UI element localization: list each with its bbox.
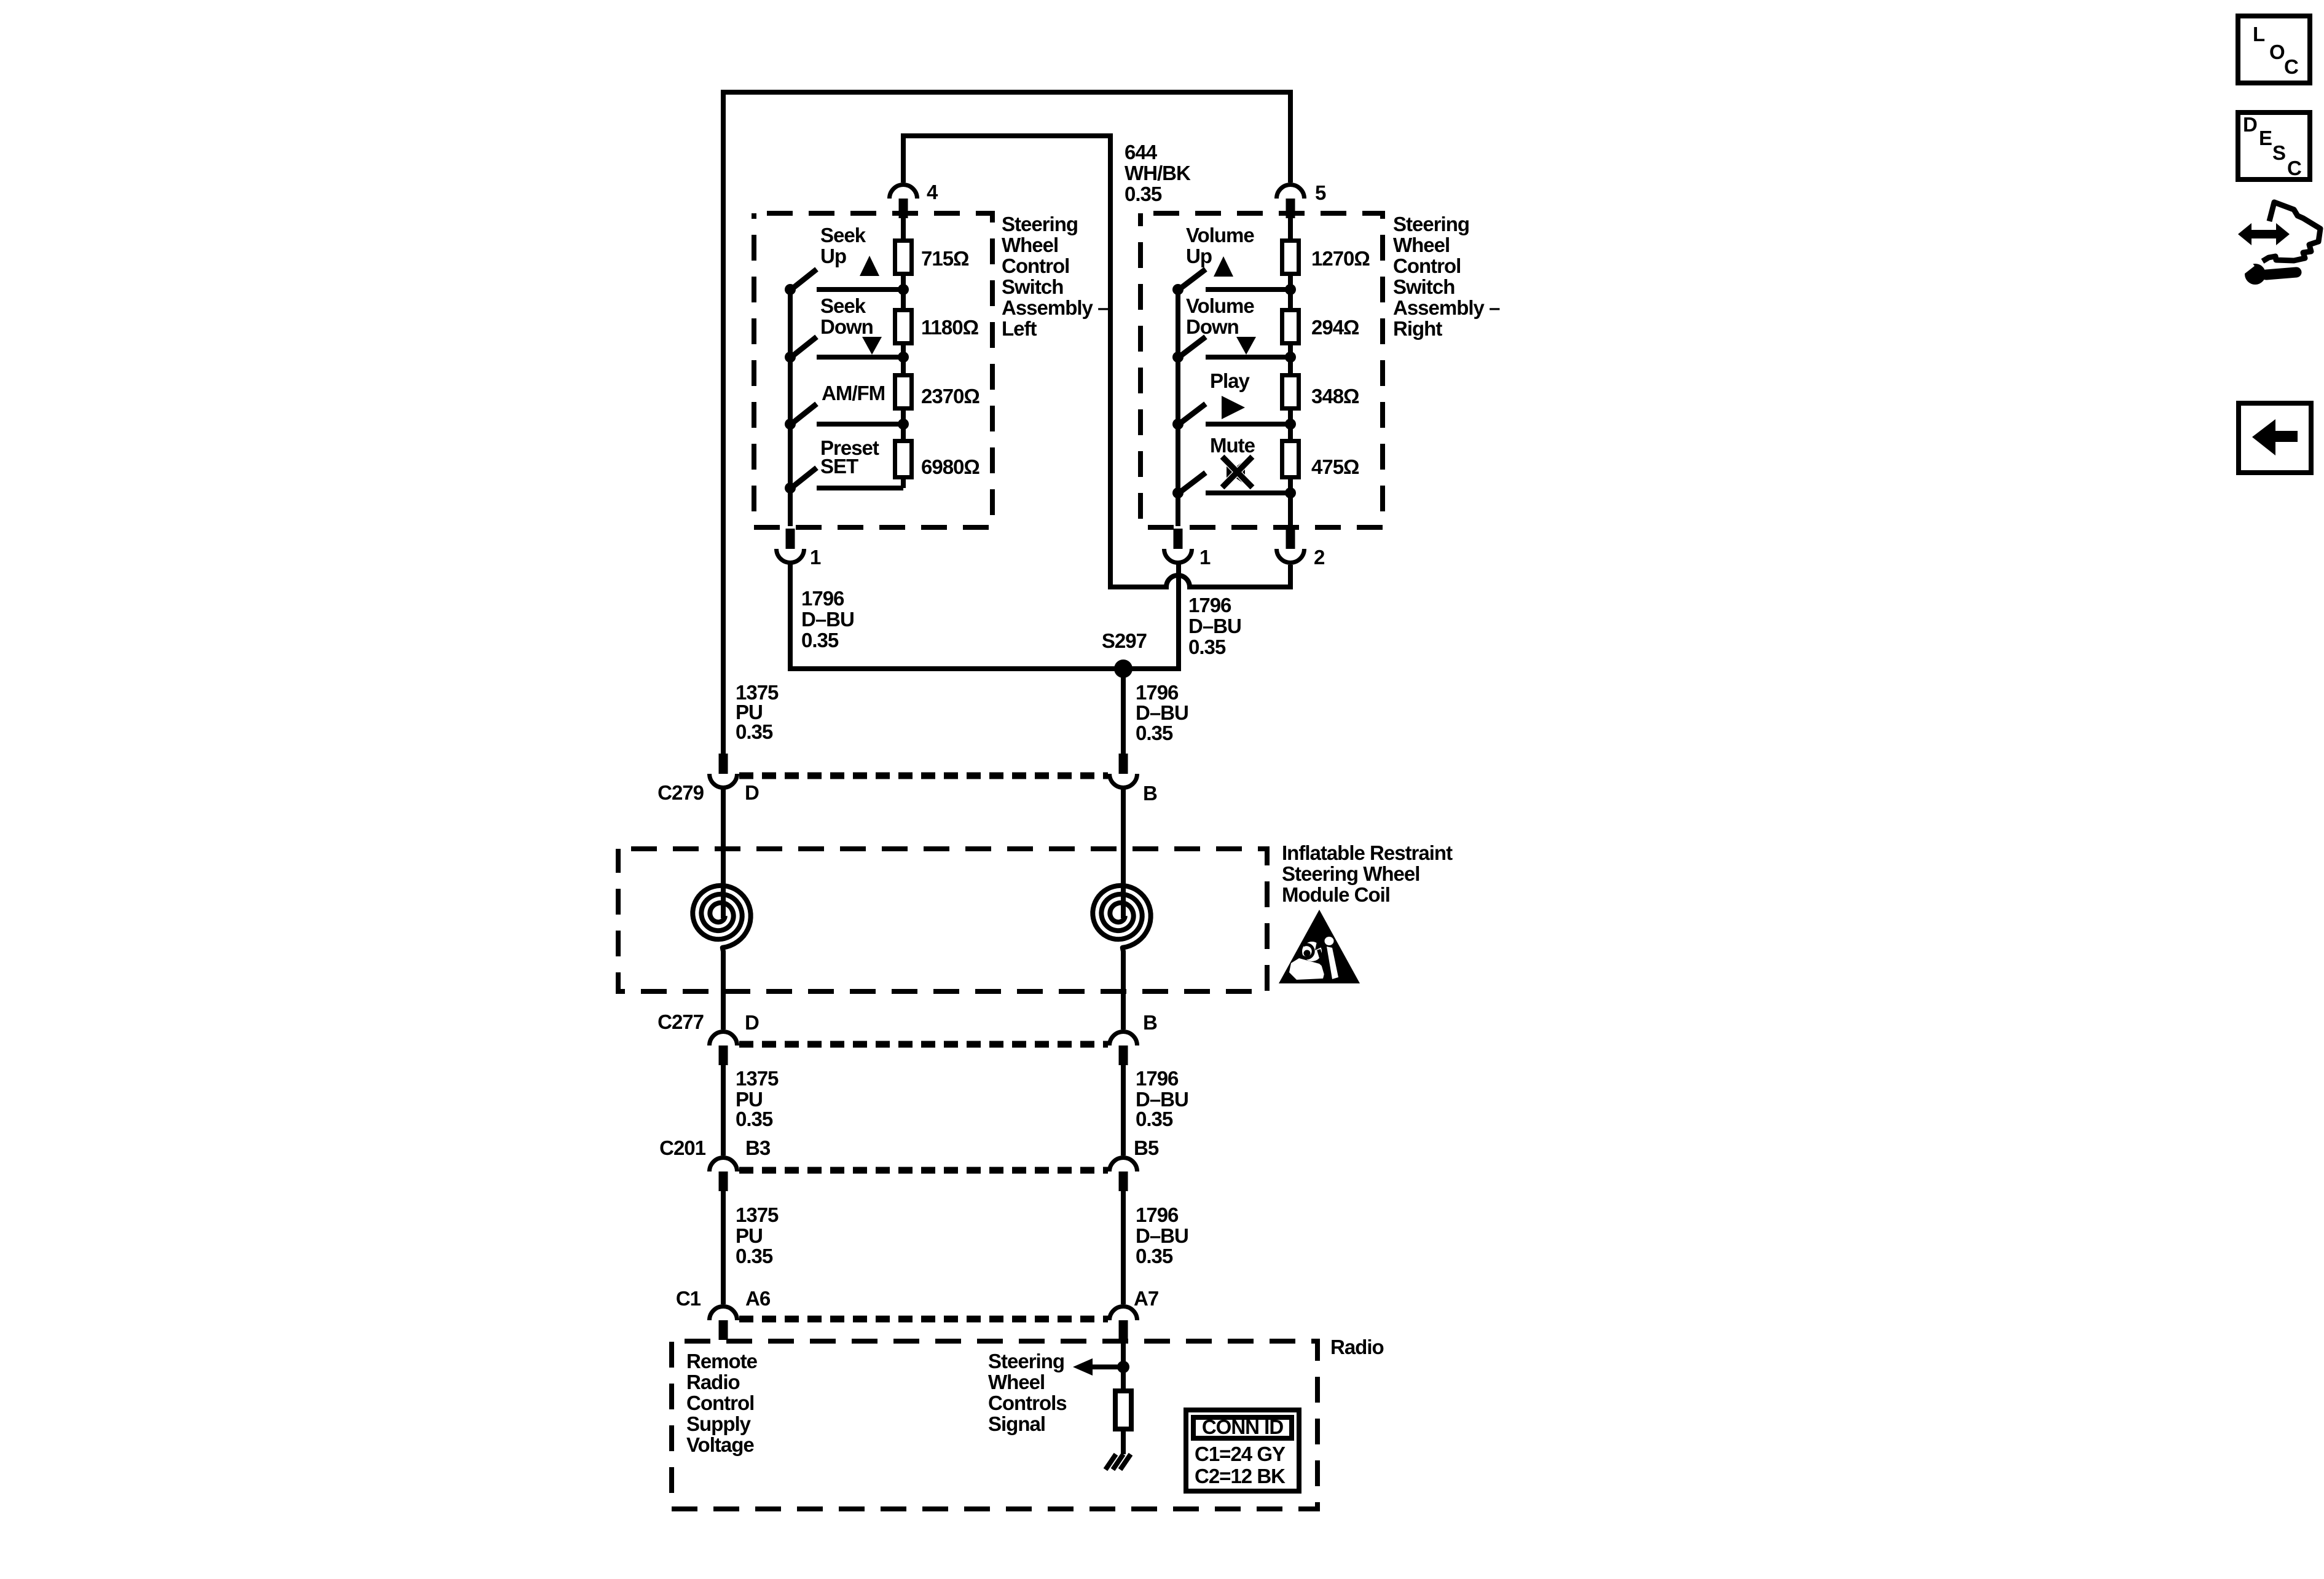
svg-text:6980Ω: 6980Ω [921,455,979,478]
label: circuit 1796 D-BU 0.35 (C201-C1) [1136,1203,1188,1267]
label: pin A6 [745,1287,771,1310]
svg-text:D: D [745,781,759,804]
connector pin 1 (left assembly bottom) [777,529,822,569]
label: Steering Wheel Controls Signal [988,1350,1067,1435]
label: Steering Wheel Control Switch Assembly - Right [1393,213,1500,340]
svg-text:0.35: 0.35 [1136,1108,1173,1130]
label: C277 [658,1010,704,1033]
label: S297 [1102,629,1147,652]
resistor: radio internal pull-up [1115,1391,1131,1429]
label: Steering Wheel Control Switch Assembly - Left [1002,213,1109,340]
svg-text:1796: 1796 [1136,1203,1179,1226]
svg-text:Up: Up [1186,245,1212,267]
wire: A7 into radio down to signal node [1121,1341,1126,1388]
ground symbol (chassis) [1105,1454,1131,1470]
svg-text:0.35: 0.35 [736,720,773,743]
signal arrow into radio [1073,1358,1123,1376]
connector C1 pin A7 [1110,1307,1137,1341]
wire: left pin1 down, across to right pin1 (node S297 run) [790,564,1179,669]
svg-text:C: C [2287,157,2301,179]
label: AM/FM [822,382,885,404]
svg-text:Module Coil: Module Coil [1282,883,1390,906]
box: Steering Wheel Control Switch Assembly - Left (dashed) [754,213,992,527]
svg-text:PU: PU [736,1224,763,1247]
connector C277 pin B [1110,1032,1137,1066]
svg-text:Down: Down [1186,315,1239,338]
wire: right switch bus [1176,289,1180,526]
label: circuit 1796 D-BU 0.35 (above C279 B) [1136,681,1188,744]
label: Mute with crossed speaker icon [1210,434,1255,487]
svg-text:C279: C279 [658,781,704,804]
wire: resistor to ground [1121,1431,1126,1454]
svg-text:D–BU: D–BU [1188,615,1241,637]
svg-text:Up: Up [820,245,846,267]
svg-text:B3: B3 [745,1136,771,1159]
svg-text:Radio: Radio [1330,1336,1384,1358]
svg-text:Steering Wheel: Steering Wheel [1282,862,1419,885]
label: Inflatable Restraint Steering Wheel Module Coil [1282,841,1453,906]
wire: 644 WH/BK loop from pin 4 over to pin 2 (hop over pin-1 wire) [903,136,1290,587]
label: circuit 644 WH/BK 0.35 [1125,141,1191,205]
connector C279 pin D [710,754,737,788]
wire: C279 B down into right coil [1121,789,1126,918]
label: circuit 1375 PU 0.35 (above C279 D) [736,681,779,743]
coil: left clockspring spiral [693,886,750,1030]
icon: SRS airbag warning triangle [1279,910,1360,983]
resistor 294 ohm [1282,310,1360,344]
label: pin B5 [1134,1136,1159,1159]
label: pin D (C279) [745,781,759,804]
table: CONN ID (C1=24 GY, C2=12 BK) [1186,1410,1299,1491]
svg-text:C1=24 GY: C1=24 GY [1195,1443,1286,1465]
label: pin B (C279) [1143,782,1157,805]
box: Radio (dashed) [672,1341,1317,1509]
svg-text:Assembly –: Assembly – [1393,296,1500,319]
svg-text:A6: A6 [745,1287,771,1310]
svg-text:644: 644 [1125,141,1158,163]
label: circuit 1375 PU 0.35 (C277-C201) [736,1067,779,1130]
wire: C277 D to C201 B3 [721,1065,726,1156]
wire: S297 down to C279 pin B [1121,669,1126,755]
svg-text:348Ω: 348Ω [1311,385,1359,408]
label: pin A7 [1134,1287,1158,1310]
wire: C279 D down into left coil [721,789,726,918]
svg-text:1270Ω: 1270Ω [1311,247,1370,270]
svg-text:0.35: 0.35 [1136,1245,1173,1267]
label: circuit 1796 D-BU 0.35 (C277-C201) [1136,1067,1188,1130]
icon: DESC page box [2238,112,2310,179]
wire: left resistor chain segments [901,218,906,488]
connector C1 pin A6 [710,1307,737,1341]
svg-text:Voltage: Voltage [686,1433,754,1456]
svg-text:Assembly –: Assembly – [1002,296,1109,319]
box: Inflatable Restraint Steering Wheel Module Coil (dashed) [618,849,1267,991]
label: C201 [659,1136,706,1159]
svg-text:4: 4 [927,181,938,203]
connector C279 pin B [1110,754,1137,788]
svg-text:WH/BK: WH/BK [1125,162,1191,184]
svg-text:B: B [1143,782,1157,805]
switch blades left (Seek Up / Seek Down / AM-FM / Preset SET) [790,269,817,489]
svg-text:0.35: 0.35 [736,1245,773,1267]
svg-text:1: 1 [1199,546,1211,569]
svg-text:C: C [2284,55,2298,78]
label: Radio [1330,1336,1384,1358]
wire: C277 B to C201 B5 [1121,1065,1126,1156]
svg-text:Steering: Steering [1393,213,1469,235]
svg-text:5: 5 [1315,181,1326,204]
svg-text:294Ω: 294Ω [1311,316,1359,339]
node: radio signal junction dot [1117,1361,1129,1373]
icon: back arrow page box [2239,403,2311,473]
icon: LOC page box [2238,16,2310,83]
svg-text:S: S [2272,141,2285,164]
svg-text:D: D [745,1011,759,1034]
connector C277 dotted interface line [739,1041,1108,1048]
svg-text:1: 1 [810,546,821,569]
svg-text:Steering: Steering [988,1350,1064,1372]
junction dots on left chain [898,284,909,430]
svg-text:Right: Right [1393,317,1442,340]
connector pin 5 (right assembly top) [1277,181,1327,218]
connector C279 dotted interface line [739,773,1108,779]
label: pin B (C277) [1143,1011,1157,1034]
svg-text:B5: B5 [1134,1136,1159,1159]
node S297 junction dot [1114,660,1133,678]
svg-text:1375: 1375 [736,1067,779,1090]
label: Seek Up with up arrow [820,224,879,276]
wire: right resistor chain segments [1288,218,1293,526]
label: Seek Down with down arrow [820,294,882,355]
box: Steering Wheel Control Switch Assembly - Right (dashed) [1140,213,1383,527]
svg-text:1796: 1796 [1136,1067,1179,1090]
svg-text:A7: A7 [1134,1287,1158,1310]
svg-text:0.35: 0.35 [801,629,839,652]
label: circuit 1796 D-BU 0.35 (right pin 1) [1188,594,1241,658]
label: circuit 1796 D-BU 0.35 (left pin 1) [801,587,854,652]
wire: radio supply loop (1375 PU) - left edge, top edge, right edge down to pin 5 [723,92,1290,755]
svg-text:0.35: 0.35 [736,1108,773,1130]
label: Remote Radio Control Supply Voltage [686,1350,758,1456]
svg-text:Control: Control [1002,254,1069,277]
svg-text:Seek: Seek [820,294,866,317]
connector C201 pin B3 [710,1158,737,1192]
wire: left switch rungs [817,289,903,488]
svg-text:D–BU: D–BU [1136,1224,1188,1247]
coil: right clockspring spiral [1093,886,1150,1030]
svg-text:1796: 1796 [801,587,844,610]
svg-text:2370Ω: 2370Ω [921,385,979,408]
resistor 475 ohm [1282,441,1360,479]
svg-text:Signal: Signal [988,1412,1045,1435]
svg-text:S297: S297 [1102,629,1147,652]
resistor 348 ohm [1282,376,1360,409]
svg-text:SET: SET [820,455,858,478]
svg-text:L: L [2253,23,2265,45]
svg-text:Switch: Switch [1393,275,1454,298]
label: C279 [658,781,704,804]
resistor 715 ohm [895,241,970,274]
svg-text:1180Ω: 1180Ω [921,316,979,339]
label: pin B3 [745,1136,771,1159]
svg-text:1375: 1375 [736,1203,779,1226]
svg-text:C277: C277 [658,1010,704,1033]
svg-text:Wheel: Wheel [1393,234,1450,256]
connector pin 4 (left assembly top) [890,181,939,218]
svg-text:C1: C1 [676,1287,701,1310]
svg-text:Seek: Seek [820,224,866,246]
svg-text:715Ω: 715Ω [921,247,969,270]
svg-text:AM/FM: AM/FM [822,382,885,404]
svg-text:Wheel: Wheel [988,1371,1045,1393]
svg-text:O: O [2269,41,2285,63]
connector C201 dotted interface line [739,1167,1108,1174]
svg-text:475Ω: 475Ω [1311,455,1359,478]
svg-text:Remote: Remote [686,1350,758,1372]
svg-text:Play: Play [1210,369,1250,392]
svg-text:1796: 1796 [1136,681,1179,704]
connector C201 pin B5 [1110,1158,1137,1192]
wire: C201 B5 to C1 A7 [1121,1191,1126,1304]
connector pin 1 (right assembly bottom) [1164,529,1211,569]
svg-text:D: D [2243,113,2257,136]
svg-text:0.35: 0.35 [1136,722,1173,744]
label: Play with play triangle [1210,369,1250,419]
wire: C201 B3 to C1 A6 [721,1191,726,1304]
connector pin 2 (right assembly bottom) [1277,529,1325,569]
wire: left switch bus [788,289,793,526]
svg-text:Inflatable Restraint: Inflatable Restraint [1282,841,1453,864]
label: Volume Down with down arrow [1186,294,1256,355]
svg-text:0.35: 0.35 [1188,636,1226,658]
svg-text:Down: Down [820,315,873,338]
resistor 1180 ohm [895,310,979,344]
svg-text:Volume: Volume [1186,294,1254,317]
svg-text:C2=12 BK: C2=12 BK [1195,1465,1286,1487]
svg-text:Mute: Mute [1210,434,1255,457]
label: Preset SET [820,436,879,478]
svg-text:E: E [2259,127,2272,149]
resistor 6980 ohm [895,441,980,479]
icon: wiring repair (arrows and wrench) [2238,202,2320,285]
svg-text:D–BU: D–BU [1136,701,1188,724]
svg-text:B: B [1143,1011,1157,1034]
label: C1 [676,1287,701,1310]
resistor 2370 ohm [895,376,980,409]
wire: right switch rungs [1206,289,1290,493]
junction dots on left bus [785,284,796,494]
svg-text:Supply: Supply [686,1412,752,1435]
junction dots on right bus [1172,284,1184,498]
svg-text:Controls: Controls [988,1392,1067,1414]
svg-text:Wheel: Wheel [1002,234,1058,256]
connector C1 dotted interface line [739,1316,1108,1323]
svg-text:D–BU: D–BU [801,608,854,631]
svg-text:Switch: Switch [1002,275,1063,298]
svg-text:1796: 1796 [1188,594,1231,616]
svg-text:Volume: Volume [1186,224,1254,246]
svg-text:Steering: Steering [1002,213,1078,235]
svg-text:CONN ID: CONN ID [1202,1416,1284,1438]
svg-text:C201: C201 [659,1136,706,1159]
svg-text:Left: Left [1002,317,1037,340]
switch blades right (Volume Up / Volume Down / Play / Mute) [1177,269,1206,494]
label: Volume Up with up arrow [1186,224,1254,277]
label: circuit 1375 PU 0.35 (C201-C1) [736,1203,779,1267]
svg-text:Control: Control [686,1392,754,1414]
svg-text:Control: Control [1393,254,1461,277]
connector C277 pin D [710,1032,737,1066]
label: pin D (C277) [745,1011,759,1034]
resistor 1270 ohm [1282,241,1370,274]
junction dots on right chain [1285,284,1296,498]
svg-text:Radio: Radio [686,1371,740,1393]
svg-text:2: 2 [1314,546,1325,569]
svg-text:0.35: 0.35 [1125,183,1162,205]
